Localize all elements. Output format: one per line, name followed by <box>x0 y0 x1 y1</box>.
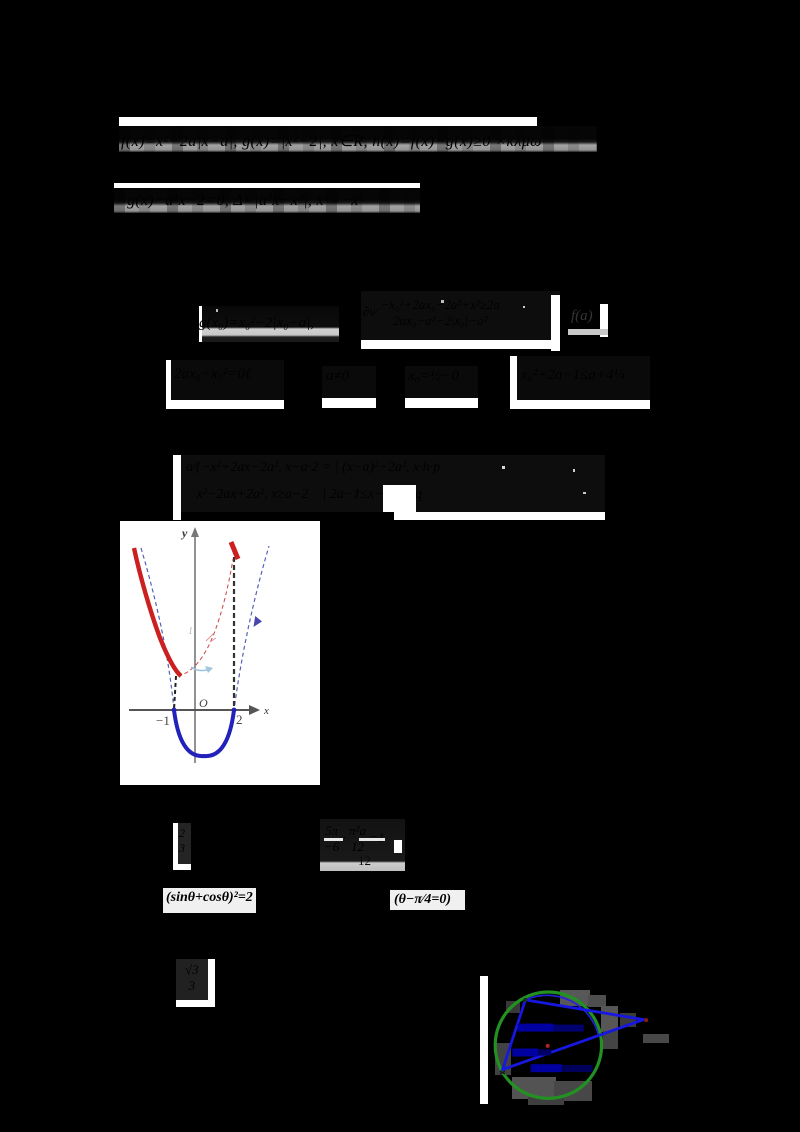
svg-text:y: y <box>180 526 188 540</box>
svg-text:−1: −1 <box>156 713 170 728</box>
svg-text:O: O <box>199 696 208 710</box>
svg-text:2: 2 <box>236 712 243 727</box>
svg-text:x: x <box>263 705 269 717</box>
svg-text:1: 1 <box>188 626 193 637</box>
